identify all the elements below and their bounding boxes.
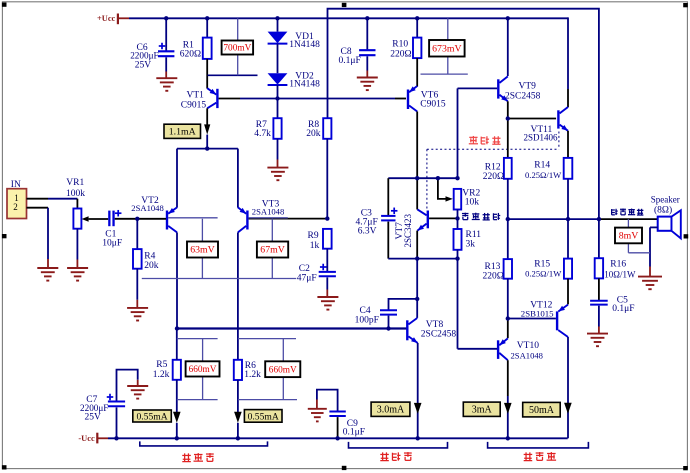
svg-text:-Ucc: -Ucc [78,434,95,443]
svg-text:2: 2 [13,202,18,212]
svg-text:1k: 1k [310,241,320,251]
svg-text:R4: R4 [144,251,155,261]
svg-text:0.55mA: 0.55mA [248,411,279,422]
svg-text:1.2k: 1.2k [153,370,170,380]
svg-text:2SA1048: 2SA1048 [511,350,543,360]
svg-text:2200μF: 2200μF [130,51,158,61]
svg-text:10Ω/1W: 10Ω/1W [604,270,636,280]
svg-text:0.1μF: 0.1μF [343,428,365,438]
svg-text:3k: 3k [466,239,476,249]
svg-text:2SC2458: 2SC2458 [505,92,541,102]
svg-text:660mV: 660mV [189,365,217,375]
svg-text:0.1μF: 0.1μF [612,304,634,314]
svg-text:100k: 100k [66,189,85,199]
svg-text:2SA1048: 2SA1048 [252,207,284,217]
svg-text:3mA: 3mA [472,405,493,416]
svg-text:(8Ω): (8Ω) [654,204,672,215]
svg-text:10μF: 10μF [102,239,122,249]
svg-text:25V: 25V [85,413,102,423]
svg-text:R5: R5 [156,360,167,370]
svg-text:700mV: 700mV [223,44,251,54]
svg-text:220Ω: 220Ω [483,172,504,182]
svg-text:1N4148: 1N4148 [289,80,320,90]
svg-text:63mV: 63mV [190,245,215,256]
svg-text:IN: IN [11,180,21,190]
svg-text:660mV: 660mV [269,365,297,375]
svg-text:0.25Ω/1W: 0.25Ω/1W [525,170,562,180]
svg-text:2SD1406: 2SD1406 [524,133,559,143]
svg-text:47μF: 47μF [297,274,317,284]
svg-text:6.3V: 6.3V [358,227,377,237]
svg-text:2200μF: 2200μF [80,403,108,413]
svg-text:67mV: 67mV [260,245,285,256]
svg-text:2SC2458: 2SC2458 [421,330,457,340]
svg-text:25V: 25V [135,61,152,71]
svg-text:VT9: VT9 [519,82,537,92]
svg-text:3.0mA: 3.0mA [377,405,405,416]
svg-text:VT8: VT8 [426,320,444,330]
svg-text:R11: R11 [466,230,482,240]
svg-text:50mA: 50mA [529,405,555,416]
svg-text:10k: 10k [465,198,480,208]
svg-text:R13: R13 [485,262,501,272]
svg-text:2SB1015: 2SB1015 [521,308,554,318]
svg-text:620Ω: 620Ω [180,49,201,59]
svg-text:VT1: VT1 [187,90,205,100]
svg-text:R12: R12 [485,162,501,172]
svg-text:2SA1048: 2SA1048 [131,203,163,213]
svg-text:0.1μF: 0.1μF [339,56,361,66]
svg-text:673mV: 673mV [432,43,461,54]
svg-text:Speaker: Speaker [651,195,680,205]
svg-text:4.7k: 4.7k [254,129,271,139]
svg-text:8mV: 8mV [619,231,639,242]
svg-text:VR1: VR1 [66,178,84,188]
svg-text:C9015: C9015 [181,100,207,110]
svg-text:2SC3423: 2SC3423 [403,213,413,247]
svg-text:1.1mA: 1.1mA [169,127,196,138]
svg-text:1N4148: 1N4148 [289,40,320,50]
svg-text:R10: R10 [392,39,408,49]
svg-text:C9015: C9015 [420,100,446,110]
svg-text:220Ω: 220Ω [483,272,504,282]
svg-text:R16: R16 [610,259,626,269]
svg-text:20k: 20k [144,261,159,271]
svg-text:220Ω: 220Ω [390,49,411,59]
svg-text:+Ucc: +Ucc [97,14,116,23]
svg-text:1.2k: 1.2k [244,370,261,380]
svg-text:20k: 20k [306,129,321,139]
svg-text:C2: C2 [299,264,310,274]
svg-text:0.25Ω/1W: 0.25Ω/1W [525,269,562,279]
svg-text:0.55mA: 0.55mA [136,411,167,422]
svg-text:R9: R9 [308,231,319,241]
svg-text:100pF: 100pF [355,316,379,326]
